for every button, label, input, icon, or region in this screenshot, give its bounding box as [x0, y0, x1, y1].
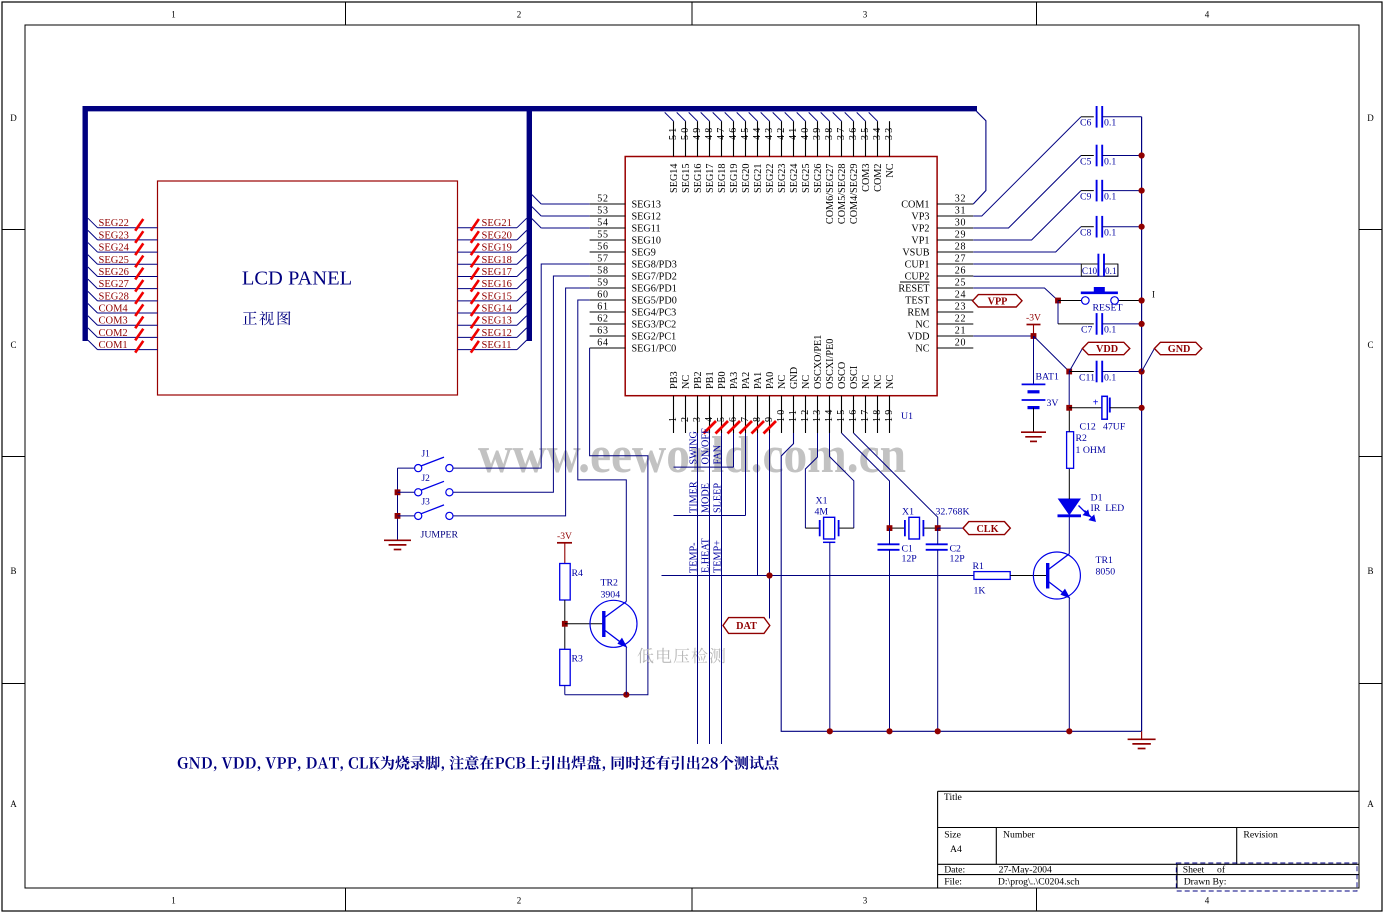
svg-text:TEST: TEST [905, 295, 930, 306]
svg-text:SEG6/PD1: SEG6/PD1 [632, 283, 677, 294]
svg-text:VPP: VPP [988, 297, 1008, 308]
svg-text:14: 14 [824, 408, 835, 422]
svg-text:C5: C5 [1080, 156, 1092, 167]
svg-text:1K: 1K [974, 586, 986, 597]
svg-text:62: 62 [597, 313, 609, 324]
svg-text:SEG26: SEG26 [813, 164, 824, 193]
svg-text:JUMPER: JUMPER [421, 530, 459, 541]
svg-text:48: 48 [704, 126, 715, 140]
pin 2 (NC) bottom [685, 396, 687, 433]
svg-text:NC: NC [915, 319, 929, 330]
svg-text:NC: NC [801, 375, 812, 389]
svg-text:NC: NC [681, 375, 692, 389]
pin 56 (SEG9) left [590, 251, 626, 253]
svg-text:3: 3 [863, 10, 868, 20]
ground (jumper) [384, 539, 411, 541]
svg-text:3: 3 [863, 896, 868, 906]
svg-text:DAT: DAT [736, 621, 757, 632]
svg-text:18: 18 [872, 408, 883, 422]
svg-text:C9: C9 [1080, 191, 1092, 202]
svg-text:1: 1 [171, 896, 176, 906]
svg-text:11: 11 [788, 408, 799, 422]
svg-text:A: A [10, 799, 17, 809]
svg-text:TEMP-: TEMP- [688, 542, 699, 573]
transistor TR1 [1033, 552, 1080, 599]
svg-text:2: 2 [517, 10, 522, 20]
svg-text:25: 25 [955, 277, 967, 288]
pin 10 (NC) bottom [781, 396, 783, 433]
node SEG12 (panel right) [458, 336, 518, 338]
node SEG27 (panel left) [88, 279, 98, 289]
pin 7 (PA2) bottom [745, 396, 747, 433]
svg-text:VDD: VDD [1096, 344, 1118, 355]
node COM2 (panel left) [88, 328, 98, 338]
wire to GND flag [1142, 349, 1155, 372]
svg-text:SEG2/PC1: SEG2/PC1 [632, 331, 677, 342]
wire pin 59 to J3 [453, 288, 590, 516]
svg-text:A4: A4 [950, 844, 962, 855]
svg-text:C7: C7 [1081, 325, 1093, 336]
svg-text:33: 33 [884, 126, 895, 140]
svg-text:PB1: PB1 [705, 371, 716, 389]
wire [689, 112, 698, 121]
svg-text:SEG15: SEG15 [482, 291, 512, 302]
pin 8 (PA1) bottom [757, 396, 759, 433]
svg-text:File:: File: [944, 876, 962, 887]
junction [887, 525, 893, 531]
svg-text:46: 46 [728, 126, 739, 140]
wire C9 to rail [1102, 190, 1141, 192]
svg-text:21: 21 [955, 325, 967, 336]
svg-text:COM1: COM1 [99, 340, 128, 351]
selection box (sheet block) [1176, 863, 1357, 891]
svg-text:FAN: FAN [712, 444, 723, 464]
svg-text:0.1: 0.1 [1104, 325, 1116, 336]
capacitor C8 [1096, 216, 1098, 238]
wire to CLK [938, 527, 963, 529]
svg-text:SEG9: SEG9 [632, 247, 656, 258]
wire [1069, 371, 1094, 373]
svg-text:GND: GND [789, 367, 800, 389]
pin 31 (VP3) right [937, 215, 973, 217]
pin 58 (SEG7/PD2) left [590, 275, 626, 277]
node COM3 (panel left) [88, 316, 98, 326]
svg-text:PA0: PA0 [765, 372, 776, 389]
pin 21 (VDD) right [937, 335, 973, 337]
pin 16 (OSCI) bottom [853, 396, 855, 433]
svg-text:22: 22 [955, 313, 967, 324]
pin 27 (CUP1) right [937, 263, 973, 265]
svg-text:CUP2: CUP2 [905, 271, 930, 282]
wire pin25 to reset button [973, 288, 1058, 301]
wire [761, 112, 770, 121]
svg-text:SEG24: SEG24 [99, 243, 130, 254]
pin 6 (PA3) bottom [733, 396, 735, 433]
svg-text:SEG19: SEG19 [482, 243, 512, 254]
svg-text:1: 1 [668, 415, 679, 422]
svg-text:PA3: PA3 [729, 372, 740, 389]
svg-text:7: 7 [740, 415, 751, 422]
svg-text:30: 30 [955, 217, 967, 228]
wire pin13 to X1(4M) [805, 433, 817, 528]
pin 29 (VP1) right [937, 239, 973, 241]
switch J2 [398, 491, 415, 493]
svg-text:SEG16: SEG16 [482, 279, 512, 290]
svg-text:U1: U1 [901, 411, 913, 422]
svg-text:PB2: PB2 [693, 371, 704, 389]
pin 59 (SEG6/PD1) left [590, 287, 626, 289]
junction [1066, 405, 1072, 411]
svg-text:59: 59 [597, 277, 609, 288]
wire bus to COM1 [973, 111, 986, 204]
crystal X1 32.768K [890, 527, 905, 529]
svg-text:SEG21: SEG21 [482, 218, 512, 229]
svg-text:PA2: PA2 [741, 372, 752, 389]
svg-text:23: 23 [955, 301, 967, 312]
pin 1 (PB3) bottom [673, 396, 675, 433]
junction [1139, 297, 1145, 303]
svg-text:OSCI: OSCI [849, 365, 860, 389]
svg-text:SEG25: SEG25 [99, 255, 129, 266]
node SEG16 (panel right) [458, 288, 518, 290]
svg-text:D1: D1 [1091, 493, 1103, 504]
wire [749, 112, 758, 121]
svg-text:COM4/SEG29: COM4/SEG29 [849, 164, 860, 225]
wire TR1 collector to D1 [1068, 517, 1070, 554]
svg-text:SEG24: SEG24 [789, 164, 800, 193]
svg-text:42: 42 [776, 126, 787, 140]
svg-text:J2: J2 [422, 474, 431, 484]
pin 55 (SEG10) left [590, 239, 626, 241]
wire [821, 112, 830, 121]
red mark [752, 421, 765, 434]
svg-text:SEG10: SEG10 [632, 235, 661, 246]
red mark [728, 421, 741, 434]
wire [809, 112, 818, 121]
svg-text:OSCXO/PE1: OSCXO/PE1 [813, 335, 824, 389]
pin 20 (NC) right [937, 347, 973, 349]
wire pin 29 to C9 [973, 191, 1081, 240]
capacitor C5 [1096, 145, 1098, 167]
wire battery to ground [1033, 408, 1035, 432]
pushbutton RESET [1058, 300, 1081, 302]
node SEG11 (panel right) [458, 349, 518, 351]
svg-text:31: 31 [955, 205, 967, 216]
svg-text:45: 45 [740, 126, 751, 140]
node SEG25 (panel left) [88, 255, 98, 264]
wire pin 54 to bus [541, 227, 589, 229]
wire pin 58 to J2 [453, 276, 590, 492]
svg-text:B: B [10, 566, 16, 576]
op-amp U1 (MCU) body [625, 157, 937, 396]
svg-text:0.1: 0.1 [1104, 228, 1116, 239]
svg-text:8050: 8050 [1096, 567, 1116, 578]
svg-text:BAT1: BAT1 [1036, 372, 1060, 383]
svg-text:CUP1: CUP1 [905, 259, 930, 270]
svg-text:Title: Title [944, 792, 962, 803]
pin 18 (NC) bottom [877, 396, 879, 433]
svg-text:56: 56 [597, 241, 609, 252]
svg-text:CLK: CLK [976, 524, 998, 535]
svg-text:SEG20: SEG20 [482, 230, 512, 241]
node SEG20 (panel right) [458, 239, 518, 241]
wire pin 60 to TR2 collector [578, 300, 627, 602]
svg-text:RESET: RESET [1093, 303, 1123, 314]
svg-text:61: 61 [597, 301, 609, 312]
svg-text:SEG20: SEG20 [741, 164, 752, 193]
svg-text:SEG27: SEG27 [99, 279, 129, 290]
pin 63 (SEG2/PC1) left [590, 335, 626, 337]
svg-text:OSCXI/PE0: OSCXI/PE0 [825, 339, 836, 389]
svg-text:J3: J3 [422, 497, 431, 507]
svg-text:20: 20 [955, 337, 967, 348]
title block [938, 790, 1359, 792]
svg-text:SEG23: SEG23 [777, 164, 788, 193]
junction [395, 489, 401, 495]
svg-text:43: 43 [764, 126, 775, 140]
wire [665, 112, 674, 121]
pin 30 (VP2) right [937, 227, 973, 229]
pin 12 (NC) bottom [805, 396, 807, 433]
svg-text:0.1: 0.1 [1105, 266, 1117, 276]
svg-text:R3: R3 [572, 654, 584, 665]
wire row SWING/ONOFF/FAN [674, 466, 734, 468]
wire to VDD flag [1069, 349, 1082, 372]
pin 61 (SEG4/PC3) left [590, 311, 626, 313]
svg-text:4: 4 [1205, 896, 1210, 906]
wire TR1 emitter to rail [1068, 598, 1070, 732]
svg-text:SEG17: SEG17 [705, 164, 716, 193]
svg-text:SWING: SWING [688, 430, 699, 464]
node SEG22 (panel left) [88, 218, 98, 228]
wire C7 to rail [1102, 323, 1141, 325]
wire R4 to R3 [564, 600, 566, 649]
svg-text:OSCO: OSCO [837, 362, 848, 389]
svg-text:VP2: VP2 [911, 223, 929, 234]
wire R1 to TR1 base [1010, 575, 1046, 577]
net flag DAT [723, 618, 770, 634]
svg-text:47UF: 47UF [1103, 422, 1126, 433]
pin 28 (VSUB) right [937, 251, 973, 253]
pin 26 (CUP2) right [937, 275, 973, 277]
svg-text:-3V: -3V [1026, 313, 1041, 324]
svg-text:PB3: PB3 [669, 371, 680, 389]
svg-text:10: 10 [776, 408, 787, 422]
pin 22 (NC) right [937, 323, 973, 325]
svg-text:9: 9 [764, 415, 775, 422]
svg-text:8: 8 [752, 415, 763, 422]
pin 60 (SEG5/PD0) left [590, 299, 626, 301]
jumper common wire [397, 468, 399, 539]
svg-text:SEG7/PD2: SEG7/PD2 [632, 271, 677, 282]
resistor R2 [1067, 432, 1074, 469]
svg-text:55: 55 [597, 229, 609, 240]
capacitor C7 [1096, 313, 1098, 335]
capacitor C2 [926, 543, 948, 545]
svg-text:1: 1 [171, 10, 176, 20]
wire R3 bottom [564, 686, 566, 695]
svg-text:24: 24 [955, 289, 967, 300]
junction [1031, 333, 1037, 339]
svg-text:SEG17: SEG17 [482, 267, 512, 278]
node SEG13 (panel right) [458, 324, 518, 326]
svg-text:12P: 12P [902, 554, 918, 565]
pin 25 (RESET) right [937, 287, 973, 289]
wire [833, 112, 842, 121]
svg-text:X1: X1 [902, 507, 914, 518]
node SEG19 (panel right) [458, 251, 518, 253]
svg-text:COM3: COM3 [99, 316, 128, 327]
svg-text:C11: C11 [1079, 372, 1095, 383]
svg-text:3V: 3V [1047, 398, 1059, 409]
svg-text:27-May-2004: 27-May-2004 [999, 864, 1052, 875]
wire R2 top [1068, 408, 1070, 432]
svg-text:R1: R1 [973, 561, 985, 572]
svg-text:5: 5 [716, 415, 727, 422]
wire [845, 112, 854, 121]
LCD bus right rail [527, 106, 532, 341]
svg-text:0.1: 0.1 [1104, 191, 1116, 202]
svg-text:13: 13 [812, 408, 823, 422]
wire pin9 down to DAT [769, 433, 771, 619]
wire pin16 to X1(32k) [854, 433, 938, 528]
net flag CLK [963, 522, 1010, 535]
junction [1139, 321, 1145, 327]
svg-text:34: 34 [872, 126, 883, 140]
svg-text:I: I [1152, 290, 1155, 300]
svg-text:LCD PANEL: LCD PANEL [242, 268, 352, 290]
wire pin 30 to C5 [973, 156, 1081, 229]
svg-text:C: C [10, 340, 16, 350]
svg-text:15: 15 [836, 408, 847, 422]
wire [725, 112, 734, 121]
svg-text:TR2: TR2 [601, 578, 619, 589]
svg-text:COM2: COM2 [99, 328, 128, 339]
svg-text:NC: NC [885, 375, 896, 389]
svg-text:R2: R2 [1076, 433, 1088, 444]
pin 24 (TEST) right [937, 299, 973, 301]
wire reset junction to C7 [1057, 301, 1059, 324]
svg-text:1 OHM: 1 OHM [1076, 445, 1106, 456]
svg-text:SEG18: SEG18 [717, 164, 728, 193]
net flag VDD [1082, 342, 1129, 354]
red mark [764, 421, 777, 434]
pin 4 (PB1) bottom [709, 396, 711, 433]
pin 23 (REM) right [937, 311, 973, 313]
svg-text:COM1: COM1 [901, 199, 929, 210]
svg-text:COM2: COM2 [873, 164, 884, 192]
svg-text:E.HEAT: E.HEAT [700, 537, 711, 573]
pin 57 (SEG8/PD3) left [590, 263, 626, 265]
wire [869, 112, 878, 121]
svg-text:19: 19 [884, 408, 895, 422]
capacitor C11 [1096, 361, 1098, 383]
svg-text:GND: GND [1168, 344, 1191, 355]
svg-text:26: 26 [955, 265, 967, 276]
svg-text:0.1: 0.1 [1104, 372, 1116, 383]
svg-text:C10: C10 [1082, 266, 1098, 276]
junction [623, 692, 629, 698]
svg-text:SEG5/PD0: SEG5/PD0 [632, 295, 677, 306]
svg-text:50: 50 [680, 126, 691, 140]
svg-text:51: 51 [668, 126, 679, 140]
svg-text:12P: 12P [950, 554, 966, 565]
capacitor C10 [1081, 264, 1098, 276]
svg-text:53: 53 [597, 205, 609, 216]
svg-text:SEG28: SEG28 [99, 291, 129, 302]
pin 19 (NC) bottom [889, 396, 891, 433]
svg-text:NC: NC [885, 163, 896, 177]
LED D1 [1059, 499, 1080, 515]
svg-text:Drawn By:: Drawn By: [1184, 876, 1227, 887]
LCD bus left rail [82, 106, 87, 341]
LCD bus top rail [83, 106, 978, 111]
pin 14 (OSCXI/PE0) bottom [829, 396, 831, 433]
svg-text:C12: C12 [1080, 422, 1096, 433]
wire [713, 112, 722, 121]
svg-text:SEG25: SEG25 [801, 164, 812, 193]
pin 5 (PB0) bottom [721, 396, 723, 433]
wire [737, 112, 746, 121]
node SEG17 (panel right) [458, 275, 518, 277]
node SEG24 (panel left) [88, 243, 98, 253]
junction [935, 525, 941, 531]
svg-text:29: 29 [955, 229, 967, 240]
red mark [704, 421, 717, 434]
junction [766, 572, 772, 578]
pin 52 (SEG13) left [590, 203, 626, 205]
node SEG23 (panel left) [88, 230, 98, 240]
svg-text:39: 39 [812, 126, 823, 140]
label 正视图 [243, 311, 291, 325]
wire C5 to rail [1102, 155, 1141, 157]
pin 11 (GND) bottom [793, 396, 795, 433]
wire D1 to R2 [1068, 468, 1070, 499]
svg-text:36: 36 [848, 126, 859, 140]
svg-text:37: 37 [836, 126, 847, 140]
svg-text:PB0: PB0 [717, 371, 728, 389]
wire C6 to rail [1102, 116, 1141, 118]
pin 13 (OSCXO/PE1) bottom [817, 396, 819, 433]
wire pin26 to C10 [973, 264, 1118, 276]
svg-text:VP1: VP1 [911, 235, 929, 246]
svg-text:35: 35 [860, 126, 871, 140]
svg-text:SEG12: SEG12 [632, 211, 661, 222]
wire C8 to rail [1102, 226, 1141, 228]
wire TR2 base [565, 623, 604, 625]
wire pin27 to C10 [973, 263, 1081, 265]
junction [1139, 405, 1145, 411]
svg-text:49: 49 [692, 126, 703, 140]
svg-text:57: 57 [597, 253, 609, 264]
wire TR2 emitter down [625, 647, 627, 695]
svg-text:3: 3 [692, 415, 703, 422]
svg-text:SEG3/PC2: SEG3/PC2 [632, 319, 677, 330]
svg-text:Date:: Date: [944, 864, 965, 875]
junction [1139, 188, 1145, 194]
wire pin15 to X1(32k) [842, 433, 890, 528]
junction [1066, 728, 1072, 734]
svg-text:2: 2 [517, 896, 522, 906]
svg-text:2: 2 [680, 415, 691, 422]
wire [677, 112, 686, 121]
svg-text:27: 27 [955, 253, 967, 264]
svg-text:4: 4 [1205, 10, 1210, 20]
svg-text:MODE: MODE [700, 483, 711, 513]
wire C11 to rail [1102, 371, 1141, 373]
switch J1 [398, 467, 415, 469]
junction [1139, 368, 1145, 374]
